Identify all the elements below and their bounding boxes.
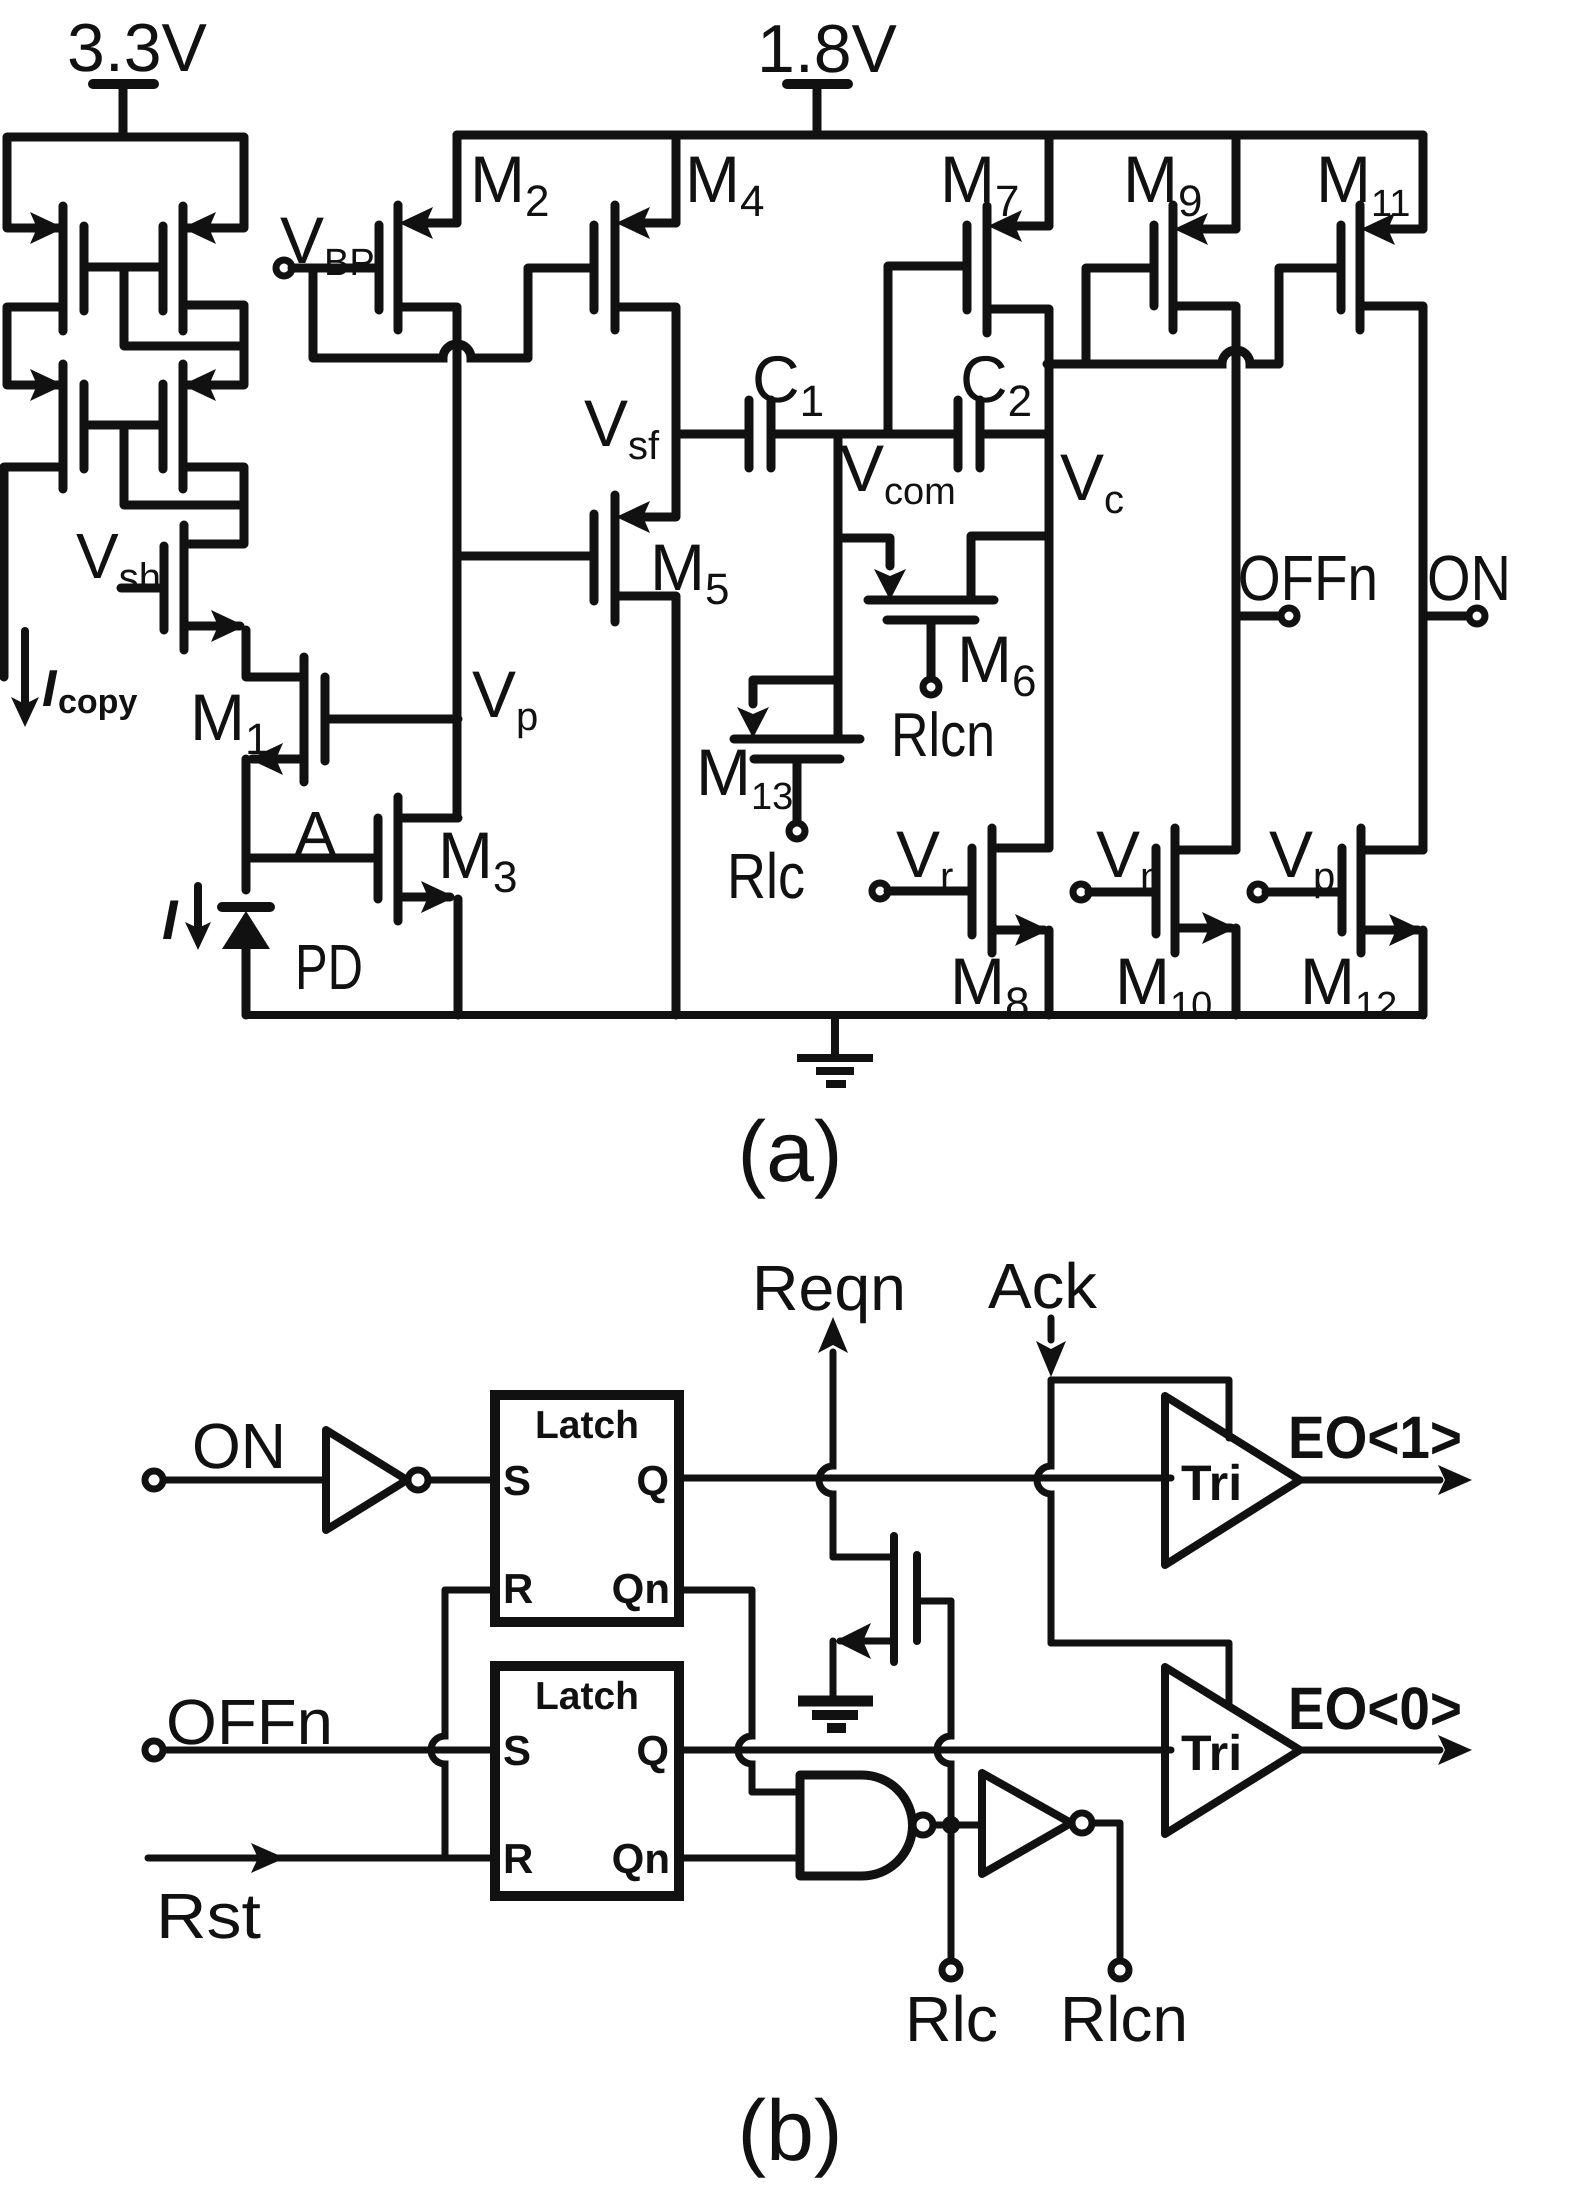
wire: MC drain down to Icopy branch (left edge)	[4, 467, 63, 677]
svg-text:M13: M13	[696, 735, 793, 818]
label Vr	[896, 817, 953, 899]
svg-text:Tri: Tri	[1181, 1725, 1242, 1781]
transistor M6 (horizontal nmos switch)	[838, 536, 1047, 695]
wire: Ack down to Tri2 enable (hops Latch1 Q wire)	[1037, 1380, 1229, 1707]
wire: Vcom vertical down to M6/M13	[834, 434, 843, 739]
label Vsf	[584, 386, 660, 468]
label M13	[696, 735, 793, 818]
label Vn	[1096, 817, 1162, 899]
photodiode PD	[222, 907, 270, 1015]
svg-text:Vp: Vp	[472, 657, 538, 739]
wire: M1 gate to Vp column	[325, 715, 458, 724]
svg-text:C1: C1	[752, 342, 824, 426]
input terminal Vp	[1250, 884, 1342, 900]
label Rlcn (b)	[1060, 1983, 1188, 2055]
wire: Latch1 Q to Tri1 input (hops Reqn and Ack verticals)	[679, 1475, 1171, 1482]
ground symbol (b)	[798, 1641, 873, 1728]
wire: Vsh gate stub	[121, 584, 164, 593]
wire: 1.8V top rail	[457, 131, 1423, 140]
nand gate U3	[800, 1775, 933, 1876]
svg-text:A: A	[294, 798, 337, 870]
wire: 1.8V rail drop to M7 source	[1009, 135, 1049, 226]
svg-text:C2: C2	[960, 342, 1032, 426]
input terminal Vr	[872, 883, 972, 899]
wire: Vsf node to C1 left plate	[676, 430, 749, 439]
input terminal OFFn (b)	[145, 1686, 495, 1759]
pmos cascode MD (second row, right device)	[163, 364, 216, 489]
svg-text:M11: M11	[1316, 142, 1410, 225]
label Rlcn (M6 gate)	[891, 701, 995, 770]
wire: Vsh source down to M1 drain	[246, 630, 304, 677]
label M6	[957, 622, 1036, 706]
wire: MA drain to second row source (left edge)	[7, 307, 63, 385]
svg-text:Vc: Vc	[1060, 440, 1124, 522]
capacitor C2	[958, 400, 980, 468]
wire: 1.8V rail drop to M4 source	[637, 135, 676, 223]
label Vcom	[840, 431, 956, 513]
wire: M10 source to ground rail	[1232, 928, 1241, 1015]
wire: MA/MB gate tie and diode connection to MB drain	[84, 267, 244, 346]
svg-text:M1: M1	[190, 680, 269, 764]
label Rlc (M13 gate)	[727, 840, 805, 912]
output terminal ON	[1423, 608, 1485, 624]
input terminal ON (b)	[145, 1410, 326, 1489]
svg-text:I: I	[42, 660, 58, 718]
wire: 1.8V rail drop to M9 source	[1195, 135, 1236, 229]
wire: M9/M11 gates to Vc column (hops over OFFn column)	[1047, 268, 1341, 364]
capacitor C1	[749, 400, 771, 468]
wire: INV1 output to Latch1 S	[429, 1477, 495, 1484]
svg-text:1.8V: 1.8V	[757, 11, 898, 87]
transistor M11 (pmos)	[1341, 205, 1395, 330]
svg-text:M5: M5	[650, 530, 729, 614]
transistor M12 (nmos)	[1342, 828, 1423, 953]
wire: 3.3V to cascode mirror sources (top box)	[7, 137, 244, 228]
svg-text:EO<1>: EO<1>	[1288, 1404, 1462, 1471]
caption (a)	[737, 1104, 842, 1200]
output EO<0> with arrow	[1288, 1675, 1472, 1765]
input terminal VBP	[276, 260, 379, 276]
caption (b)	[737, 2083, 842, 2179]
svg-text:PD: PD	[295, 931, 363, 1003]
svg-text:Latch: Latch	[535, 1675, 639, 1718]
wire: 1.8V rail drop to M2 source	[420, 135, 457, 223]
wire: M8 drain tap	[992, 844, 1049, 853]
svg-text:Reqn: Reqn	[752, 1252, 906, 1324]
svg-text:Rlcn: Rlcn	[1060, 1983, 1188, 2055]
wire: Rlc node up to pulldown gate (hops Latch2 Q wire)	[937, 1601, 951, 1825]
svg-text:Rst: Rst	[156, 1880, 261, 1952]
transistor M10 (nmos)	[1156, 828, 1236, 953]
label M5	[650, 530, 729, 614]
label M8	[950, 944, 1029, 1028]
svg-text:R: R	[503, 1835, 533, 1882]
wire: M10 drain tap	[1175, 846, 1236, 855]
label M2	[470, 142, 549, 226]
wire: Latch2 Q to Tri2 input (hops Qn1 and Rlc verticals)	[679, 1747, 1171, 1754]
svg-text:Tri: Tri	[1181, 1455, 1242, 1511]
svg-text:Latch: Latch	[535, 1404, 639, 1447]
wire: M4 drain down to Vsf node and M5 source	[615, 307, 676, 517]
pmos mirror MB (top-left, right device)	[163, 206, 216, 331]
svg-text:Q: Q	[636, 1727, 669, 1774]
transistor M13 (horizontal dummy switch)	[734, 680, 860, 839]
wire: Latch1 R down to Rst line (hops OFFn wire)	[431, 1590, 495, 1858]
latch U1 (Latch)	[495, 1395, 679, 1622]
svg-text:Ack: Ack	[988, 1250, 1098, 1322]
wire: MC/MD gate tie and diode connection to MD drain	[84, 425, 244, 505]
wire: VBP to M4 gate (hops over M2 drain)	[313, 268, 594, 358]
svg-text:M2: M2	[470, 142, 549, 226]
output Reqn with up arrow (hops Latch1 Q wire)	[752, 1252, 906, 1557]
svg-text:M6: M6	[957, 622, 1036, 706]
label Vp (M12 gate)	[1269, 817, 1335, 899]
wire: M12 source to ground rail	[1419, 930, 1428, 1015]
svg-text:Vr: Vr	[896, 817, 953, 899]
svg-text:R: R	[503, 1565, 533, 1612]
nmos pulldown on Reqn (b)	[833, 1536, 951, 1662]
svg-text:M4: M4	[685, 142, 764, 226]
wire: MB drain down right edge to second row source	[183, 305, 244, 385]
label PD	[295, 931, 363, 1003]
svg-text:Rlcn: Rlcn	[891, 701, 995, 770]
svg-text:copy: copy	[58, 683, 137, 721]
label M12	[1300, 944, 1397, 1027]
svg-text:Rlc: Rlc	[905, 1983, 998, 2055]
svg-text:(a): (a)	[737, 1104, 842, 1200]
wire: M5 gate to Vp column	[458, 552, 594, 561]
annotation: photodiode current I arrow	[162, 886, 211, 951]
wire: M5 drain to ground rail	[615, 596, 676, 1015]
latch U2 (Latch)	[495, 1666, 679, 1896]
transistor M3 (nmos)	[378, 797, 455, 921]
wire: M3 drain to Vp column	[398, 814, 458, 823]
input Ack with down arrow	[988, 1250, 1098, 1377]
svg-text:EO<0>: EO<0>	[1288, 1675, 1462, 1742]
power supply 1.8V	[757, 11, 898, 135]
transistor M2 (pmos)	[379, 205, 433, 330]
svg-text:M3: M3	[438, 818, 517, 902]
svg-text:ON: ON	[1427, 542, 1511, 614]
svg-text:OFFn: OFFn	[1238, 542, 1378, 614]
svg-text:Vsf: Vsf	[584, 386, 660, 468]
svg-text:(b): (b)	[737, 2083, 842, 2179]
wire: M7 gate to Vcom wire	[888, 266, 967, 434]
svg-text:S: S	[503, 1457, 531, 1504]
output terminal OFFn	[1236, 608, 1297, 624]
inverter INV2	[982, 1773, 1092, 1874]
wire: M7 drain down Vc column to M8 drain	[987, 309, 1049, 848]
wire: M9 drain down OFFn column to M10 drain	[1173, 306, 1236, 850]
node A wire to M3 gate	[246, 854, 378, 863]
svg-text:M9: M9	[1123, 142, 1202, 226]
svg-text:Vp: Vp	[1269, 817, 1335, 899]
pmos mirror MA (top-left, left device)	[30, 206, 84, 331]
transistor M4 (pmos)	[594, 205, 650, 330]
label Rlc (b)	[905, 1983, 998, 2055]
wire: M3 source to ground rail	[454, 899, 463, 1015]
svg-text:3.3V: 3.3V	[67, 10, 208, 86]
svg-text:Q: Q	[636, 1457, 669, 1504]
svg-text:ON: ON	[192, 1410, 286, 1482]
svg-text:VBP: VBP	[280, 203, 375, 284]
ground symbol	[797, 1015, 873, 1084]
label C1	[752, 342, 824, 426]
transistor M5 (pmos)	[594, 495, 650, 622]
wire: Vcom net C1 right plate to C2 left plate	[771, 430, 958, 439]
label M7	[940, 142, 1019, 226]
label M3	[438, 818, 517, 902]
svg-text:Qn: Qn	[612, 1835, 670, 1882]
label VBP	[280, 203, 375, 284]
wire: Latch1 Qn to NAND input A (hops Latch2 Q wire)	[679, 1590, 800, 1792]
output EO<1> with arrow	[1288, 1404, 1472, 1495]
power supply 3.3V	[67, 10, 208, 137]
transistor M1 (nmos, gate on right)	[249, 657, 325, 782]
label Vsh	[76, 520, 161, 600]
label M4	[685, 142, 764, 226]
svg-text:M7: M7	[940, 142, 1019, 226]
pmos cascode MC (second row, left device)	[30, 364, 84, 489]
svg-text:Vsh: Vsh	[76, 520, 161, 600]
label ON	[1427, 542, 1511, 614]
wire: Ack to Tri1 enable	[1051, 1380, 1229, 1438]
wire: ground rail	[246, 1011, 1426, 1019]
node Rlc junction dot	[942, 1816, 960, 1834]
wire: M8 source to ground rail	[1045, 930, 1054, 1015]
label OFFn	[1238, 542, 1378, 614]
wire: Latch2 Qn to NAND input B	[679, 1855, 800, 1862]
label M1	[190, 680, 269, 764]
transistor M8 (nmos)	[972, 828, 1049, 953]
label node A	[294, 798, 337, 870]
label Vc (node)	[1060, 440, 1124, 522]
wire: C2 right plate to Vc column	[980, 430, 1047, 439]
svg-text:Qn: Qn	[612, 1565, 670, 1612]
nmos source-follower Vsh device	[164, 525, 245, 650]
wire: M2 drain down Vp column to M3 drain	[398, 307, 457, 818]
label Vp (node)	[472, 657, 538, 739]
wire: M12 drain tap	[1361, 846, 1423, 855]
wire: MD drain down to Vsh transistor drain	[183, 467, 244, 544]
label M9	[1123, 142, 1202, 226]
wire: 1.8V rail right end drop to M11 source	[1382, 135, 1423, 229]
annotation: Icopy current arrow	[11, 631, 137, 727]
svg-text:Rlc: Rlc	[727, 840, 805, 912]
svg-text:Vcom: Vcom	[840, 431, 956, 513]
tri-state buffer Tri1	[1165, 1396, 1300, 1565]
input Rst with arrow	[148, 1843, 493, 1952]
tri-state buffer Tri2	[1165, 1667, 1300, 1834]
label C2	[960, 342, 1032, 426]
label M11	[1316, 142, 1410, 225]
svg-text:S: S	[503, 1727, 531, 1774]
inverter INV1	[326, 1430, 428, 1530]
label M10	[1115, 944, 1212, 1027]
wire: M1 source down through node A to photodiode	[242, 759, 251, 890]
wire: Rlc node down to Rlc terminal	[942, 1825, 960, 1979]
wire: INV2 output to Rlcn terminal	[1092, 1823, 1129, 1979]
input terminal Vn	[1073, 884, 1156, 900]
wire: NAND output to INV2 input	[933, 1822, 982, 1829]
svg-text:OFFn: OFFn	[166, 1686, 333, 1758]
svg-text:I: I	[162, 888, 179, 951]
transistor M7 (pmos)	[967, 206, 1022, 333]
wire: M11 drain down ON column to M12 drain	[1360, 306, 1423, 850]
transistor M9 (pmos)	[1154, 205, 1208, 330]
